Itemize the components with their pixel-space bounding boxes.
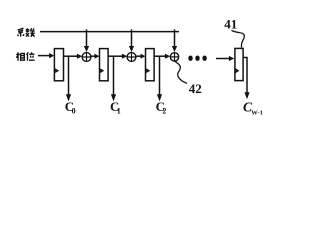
arrowhead: into adder 2 — [122, 54, 127, 59]
adder (XOR) 42 stage 3 — [170, 53, 178, 61]
clock chevron on register #3 — [146, 69, 150, 73]
wire: coefficient drop to adder 42 (stage 2) — [131, 29, 133, 46]
wire: adder 2 output to register #3 — [136, 55, 142, 57]
register 41 #3 — [146, 49, 155, 81]
wire: coefficient bus (top rail) — [40, 31, 179, 33]
clock chevron on register #2 — [100, 69, 104, 73]
arrowhead: into adder 1 — [77, 54, 82, 59]
svg-text:41: 41 — [224, 17, 237, 32]
clock chevron on last register — [235, 69, 238, 73]
arrowhead: into last register — [229, 56, 234, 61]
arrowhead: tap C1 — [111, 94, 116, 101]
wire: tap junction down to C2 — [159, 56, 161, 95]
ellipsis dots (continuation) — [188, 56, 192, 61]
wire: input into last register 41 — [216, 58, 230, 60]
wire: last register output stub and tap down to C_W-1 — [243, 58, 247, 94]
wire: register #1 output to adder 42 (stage 1) — [64, 55, 78, 57]
arrowhead: phase input — [49, 53, 54, 58]
adder (XOR) 42 stage 1 — [82, 53, 91, 62]
arrowhead: tap C0 — [66, 94, 71, 101]
wire: register #2 output to adder 42 (stage 2) — [108, 55, 123, 57]
arrowhead: coefficient drop into adder 2 — [129, 46, 134, 52]
wire: register #3 output to adder 42 (stage 3) — [154, 55, 166, 57]
svg-text:1: 1 — [117, 106, 121, 115]
arrowhead: into register #2 — [95, 54, 100, 59]
arrowhead: tap C_W-1 — [244, 92, 249, 99]
arrowhead: coefficient drop into adder 3 — [172, 46, 177, 52]
svg-text:0: 0 — [72, 106, 76, 115]
arrowhead: tap C2 — [157, 94, 162, 101]
register 41 #1 — [54, 49, 63, 81]
svg-text:2: 2 — [162, 106, 166, 115]
wire: adder 1 output to register #2 — [91, 55, 96, 57]
wire: coefficient drop to adder 42 (stage 3) — [174, 29, 176, 46]
register 41 #N (last) — [235, 48, 243, 80]
register 41 #2 — [100, 49, 109, 81]
clock chevron on register #1 — [55, 69, 59, 73]
svg-text:42: 42 — [189, 81, 202, 96]
wire: phase input arrow into register 41 #1 — [38, 55, 50, 57]
leader squiggle from adder 3 to label 42 — [175, 61, 187, 83]
arrowhead: into adder 3 — [165, 54, 170, 59]
wire: coefficient drop to adder 42 (stage 1) — [86, 29, 88, 46]
arrowhead: coefficient drop into adder 1 — [84, 46, 89, 52]
label: coefficient (系数) — [17, 28, 34, 36]
wire: tap junction down to C0 — [68, 56, 70, 95]
wire: tap junction down to C1 — [113, 56, 115, 95]
leader squiggle from label 41 to last register — [232, 30, 245, 47]
arrowhead: into register #3 — [141, 54, 146, 59]
svg-text:W-1: W-1 — [251, 110, 263, 117]
adder (XOR) 42 stage 2 — [127, 53, 136, 62]
label: phase (相位) — [16, 52, 34, 61]
